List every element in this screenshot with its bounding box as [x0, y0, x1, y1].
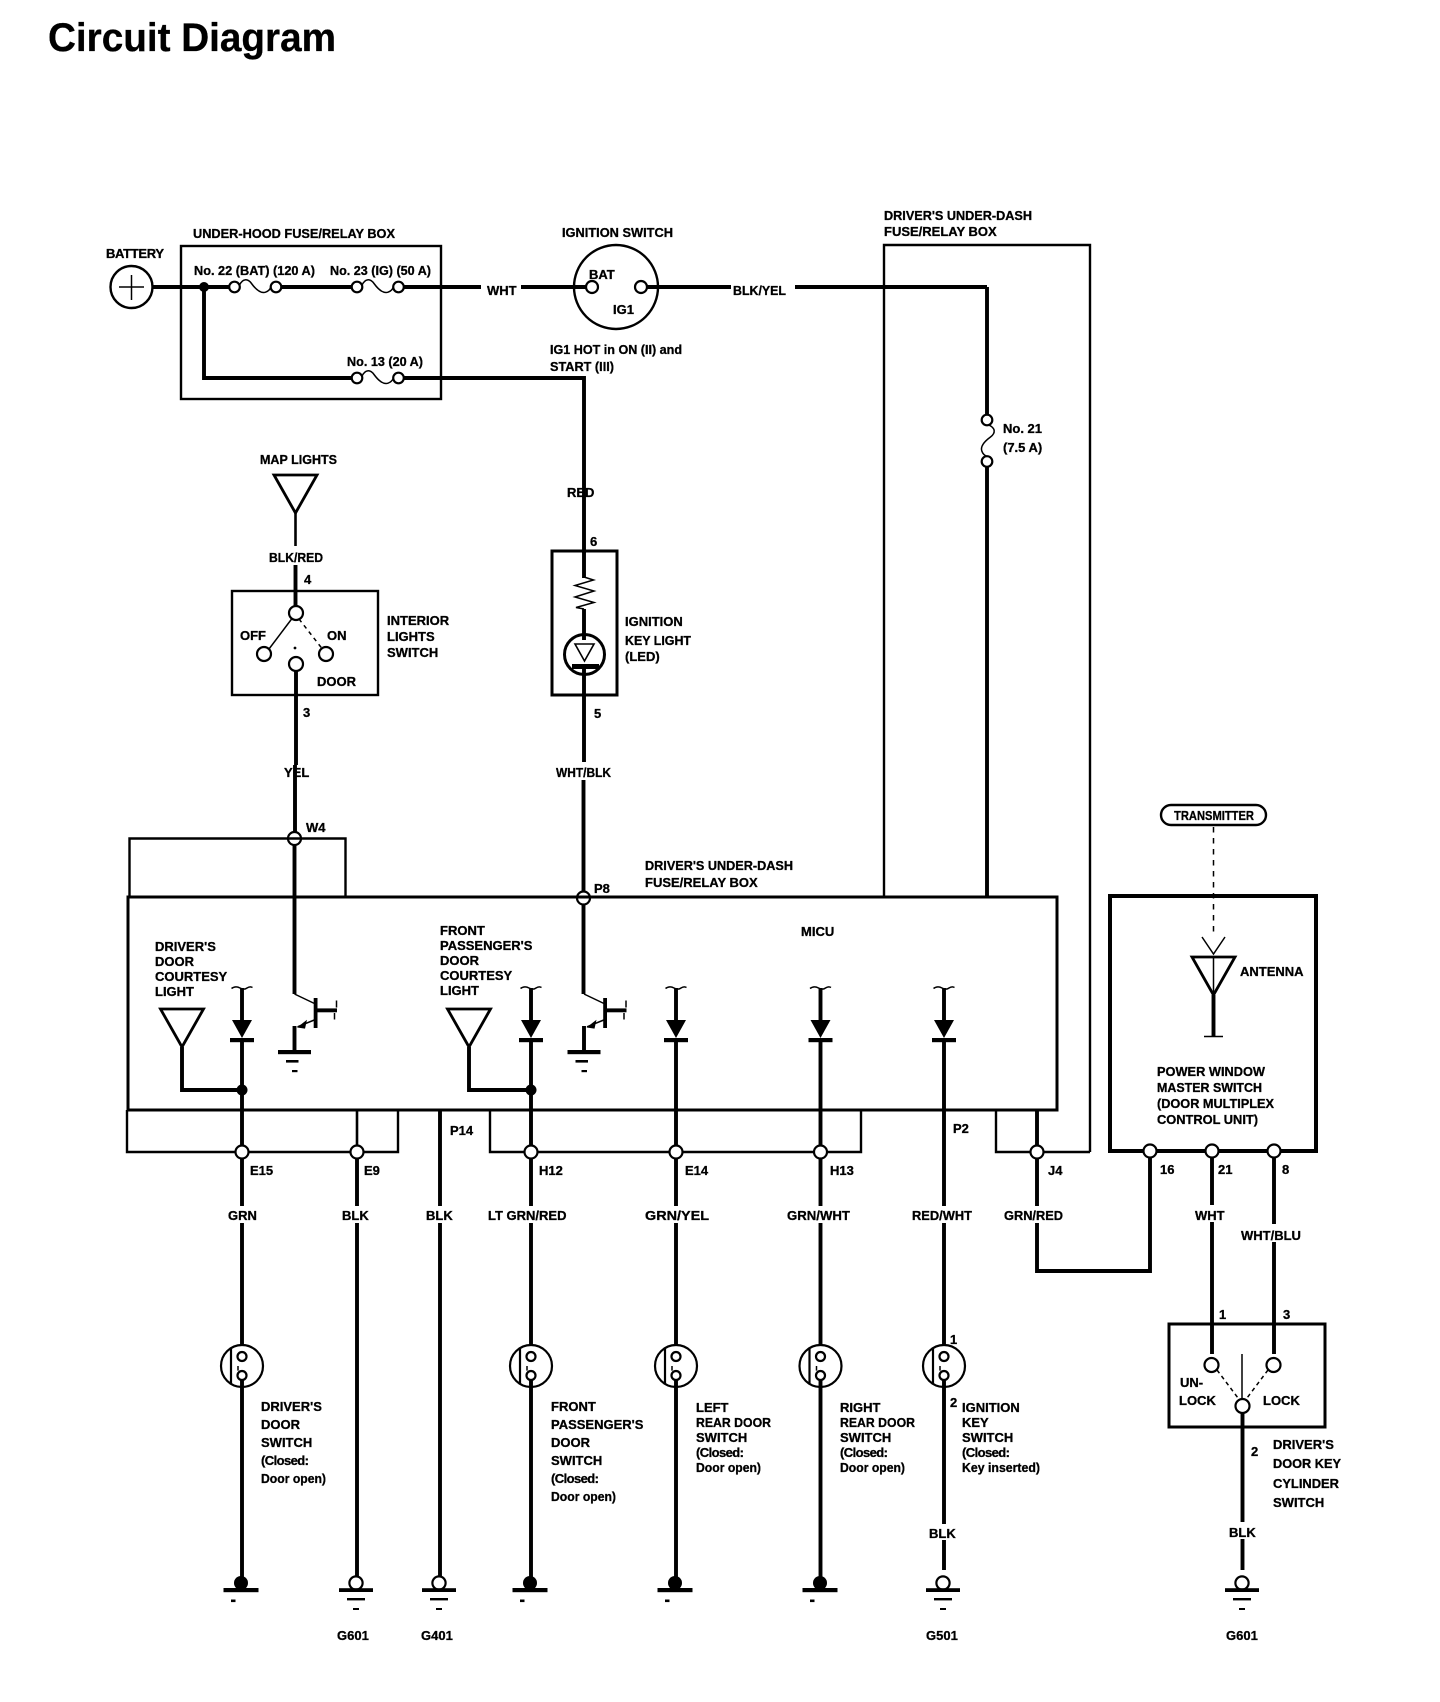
svg-text:4: 4 — [304, 572, 312, 587]
svg-text:5: 5 — [594, 706, 601, 721]
wire LED to box bottom — [582, 666, 586, 695]
interior lights switch — [232, 591, 378, 695]
svg-text:G401: G401 — [421, 1628, 453, 1643]
wire GRN/RED J4 to pin16 — [1037, 1158, 1150, 1271]
wire J4 stub — [1035, 1110, 1039, 1146]
svg-text:G601: G601 — [337, 1628, 369, 1643]
svg-text:No. 23 (IG) (50 A): No. 23 (IG) (50 A) — [330, 263, 431, 278]
svg-text:DOOR: DOOR — [261, 1417, 301, 1432]
svg-text:2: 2 — [950, 1395, 957, 1410]
wire GRN — [240, 1158, 244, 1353]
wire passenger switch to ground — [529, 1379, 533, 1578]
svg-text:BLK/RED: BLK/RED — [269, 550, 323, 565]
svg-text:Door open): Door open) — [551, 1489, 616, 1504]
driver's door switch — [221, 1345, 263, 1387]
dashed contact to unlock — [1217, 1370, 1238, 1398]
svg-text:KEY: KEY — [962, 1415, 989, 1430]
wire YEL switch to W4 — [294, 671, 298, 765]
wire resistor to LED — [582, 609, 586, 640]
transmitter — [1161, 805, 1266, 825]
wire BLK/YEL ignition to under-dash box — [647, 285, 731, 289]
ignition key switch — [923, 1345, 965, 1387]
transistor Q2 — [568, 994, 627, 1072]
svg-text:Key inserted): Key inserted) — [962, 1460, 1040, 1475]
lever — [1241, 1354, 1243, 1398]
svg-text:LIGHT: LIGHT — [155, 984, 194, 999]
svg-text:IG1: IG1 — [613, 302, 634, 317]
svg-text:BLK: BLK — [426, 1208, 453, 1223]
wire P14 — [438, 1110, 442, 1577]
svg-text:COURTESY: COURTESY — [440, 968, 513, 983]
svg-text:No. 22 (BAT) (120 A): No. 22 (BAT) (120 A) — [194, 263, 315, 278]
svg-text:LOCK: LOCK — [1263, 1393, 1300, 1408]
svg-text:ANTENNA: ANTENNA — [1240, 964, 1304, 979]
svg-text:FUSE/RELAY BOX: FUSE/RELAY BOX — [645, 875, 758, 890]
svg-text:KEY LIGHT: KEY LIGHT — [625, 633, 691, 648]
svg-text:Door open): Door open) — [261, 1471, 326, 1486]
svg-text:REAR DOOR: REAR DOOR — [696, 1415, 772, 1430]
wire GRN/YEL — [674, 1158, 678, 1353]
svg-text:(LED): (LED) — [625, 649, 660, 664]
diode D5 — [932, 987, 956, 1042]
svg-text:E15: E15 — [250, 1163, 273, 1178]
svg-text:CYLINDER: CYLINDER — [1273, 1476, 1340, 1491]
dashed transmitter signal — [1213, 827, 1215, 934]
svg-text:BATTERY: BATTERY — [106, 246, 164, 261]
svg-text:SWITCH: SWITCH — [1273, 1495, 1324, 1510]
wire WHT/BLU pin8 to key cylinder — [1272, 1158, 1276, 1354]
switch ON terminal — [319, 647, 333, 661]
svg-text:FRONT: FRONT — [440, 923, 485, 938]
wire GRN/WHT — [819, 1158, 823, 1353]
svg-text:G601: G601 — [1226, 1628, 1258, 1643]
svg-text:RIGHT: RIGHT — [840, 1400, 881, 1415]
svg-text:MAP LIGHTS: MAP LIGHTS — [260, 452, 337, 467]
svg-text:8: 8 — [1282, 1162, 1289, 1177]
front passenger's door switch — [510, 1345, 552, 1387]
left rear door switch — [655, 1345, 697, 1387]
svg-text:OFF: OFF — [240, 628, 266, 643]
svg-text:CONTROL UNIT): CONTROL UNIT) — [1157, 1112, 1258, 1127]
svg-text:Door open): Door open) — [696, 1460, 761, 1475]
driver's door courtesy light — [161, 1009, 204, 1047]
fuse No.21 (7.5 A) — [981, 415, 994, 467]
svg-text:INTERIOR: INTERIOR — [387, 613, 450, 628]
under-dash box top strip — [130, 839, 346, 898]
svg-text:(Closed:: (Closed: — [261, 1453, 309, 1468]
svg-text:COURTESY: COURTESY — [155, 969, 228, 984]
svg-text:H12: H12 — [539, 1163, 563, 1178]
power window master switch box — [1110, 896, 1316, 1151]
svg-text:No. 13 (20 A): No. 13 (20 A) — [347, 354, 423, 369]
svg-text:GRN/RED: GRN/RED — [1004, 1208, 1063, 1223]
connector E14 — [670, 1146, 683, 1159]
svg-text:DRIVER'S: DRIVER'S — [261, 1399, 322, 1414]
svg-text:(Closed:: (Closed: — [962, 1445, 1010, 1460]
wire driver's switch to ground — [240, 1379, 244, 1578]
switch lever to OFF — [269, 619, 292, 650]
wire left rear switch to ground — [674, 1379, 678, 1578]
ground left rear switch — [658, 1576, 693, 1602]
wire into key light — [582, 551, 586, 578]
svg-text:No. 21: No. 21 — [1003, 421, 1042, 436]
terminal LOCK — [1267, 1358, 1281, 1372]
svg-text:PASSENGER'S: PASSENGER'S — [551, 1417, 644, 1432]
svg-text:IGNITION: IGNITION — [625, 614, 683, 629]
svg-text:WHT: WHT — [1195, 1208, 1225, 1223]
svg-text:W4: W4 — [306, 820, 326, 835]
svg-text:IGNITION: IGNITION — [962, 1400, 1020, 1415]
svg-text:TRANSMITTER: TRANSMITTER — [1174, 808, 1255, 823]
MICU box — [128, 897, 1057, 1110]
svg-text:16: 16 — [1160, 1162, 1174, 1177]
diode D3 — [664, 987, 688, 1042]
ground G401 (P14) — [422, 1576, 456, 1610]
svg-text:BLK/YEL: BLK/YEL — [733, 283, 786, 298]
node W4 — [288, 832, 301, 845]
ground right rear switch — [803, 1576, 838, 1602]
front passenger's door courtesy light — [448, 1009, 491, 1047]
svg-text:J4: J4 — [1048, 1163, 1063, 1178]
svg-text:RED: RED — [567, 485, 594, 500]
svg-text:START (III): START (III) — [550, 359, 614, 374]
svg-text:E9: E9 — [364, 1163, 380, 1178]
wire courtesy light 2 to junction — [469, 1047, 529, 1090]
junction dot passenger courtesy — [526, 1085, 537, 1096]
svg-text:FRONT: FRONT — [551, 1399, 596, 1414]
svg-text:POWER WINDOW: POWER WINDOW — [1157, 1064, 1266, 1079]
svg-text:(Closed:: (Closed: — [551, 1471, 599, 1486]
resistor — [575, 577, 594, 609]
svg-text:GRN: GRN — [228, 1208, 257, 1223]
svg-text:DRIVER'S UNDER-DASH: DRIVER'S UNDER-DASH — [884, 208, 1032, 223]
svg-text:SWITCH: SWITCH — [261, 1435, 312, 1450]
svg-text:WHT/BLK: WHT/BLK — [556, 765, 612, 780]
svg-text:MICU: MICU — [801, 924, 834, 939]
antenna — [1192, 957, 1235, 995]
svg-text:BAT: BAT — [589, 267, 615, 282]
svg-text:2: 2 — [1251, 1444, 1258, 1459]
svg-text:ON: ON — [327, 628, 347, 643]
svg-text:LIGHTS: LIGHTS — [387, 629, 435, 644]
svg-text:(Closed:: (Closed: — [840, 1445, 888, 1460]
dashed contact to lock — [1247, 1370, 1268, 1398]
map lights lamp — [274, 475, 317, 513]
ground driver's door switch — [224, 1576, 259, 1602]
svg-text:DOOR: DOOR — [551, 1435, 591, 1450]
diode D2 — [519, 987, 543, 1042]
wire D5 through P2 — [942, 1042, 946, 1353]
svg-text:DOOR KEY: DOOR KEY — [1273, 1456, 1341, 1471]
svg-text:UNDER-HOOD FUSE/RELAY BOX: UNDER-HOOD FUSE/RELAY BOX — [193, 226, 395, 241]
connector H13 — [814, 1146, 827, 1159]
svg-text:DRIVER'S: DRIVER'S — [1273, 1437, 1334, 1452]
svg-text:DRIVER'S UNDER-DASH: DRIVER'S UNDER-DASH — [645, 858, 793, 873]
svg-text:LT GRN/RED: LT GRN/RED — [488, 1208, 566, 1223]
ground G601 (E9) — [339, 1576, 373, 1610]
LED lamp — [565, 635, 605, 675]
pin 8 — [1268, 1145, 1281, 1158]
connector strip H12/E14/H13 — [490, 1110, 861, 1152]
connector strip J4 — [996, 1110, 1090, 1152]
svg-text:YEL: YEL — [284, 765, 309, 780]
svg-text:P8: P8 — [594, 881, 610, 896]
wire WHT fuse23 to ignition switch — [404, 285, 481, 289]
svg-text:E14: E14 — [685, 1163, 709, 1178]
wire map lights to switch — [294, 513, 297, 546]
svg-text:BLK: BLK — [929, 1526, 956, 1541]
terminal IG1 — [635, 281, 647, 293]
svg-text:IGNITION SWITCH: IGNITION SWITCH — [562, 225, 673, 240]
battery — [111, 266, 153, 308]
dashed lever to ON — [299, 619, 322, 649]
connector J4 — [1031, 1146, 1044, 1159]
driver's door key cylinder switch box — [1169, 1324, 1325, 1427]
svg-text:BLK: BLK — [342, 1208, 369, 1223]
switch DOOR terminal — [289, 657, 303, 671]
right rear door switch — [800, 1345, 842, 1387]
wire D1 to E15 — [240, 1042, 244, 1146]
wire BLK key cylinder to ground — [1241, 1413, 1245, 1570]
svg-text:IG1 HOT in ON (II) and: IG1 HOT in ON (II) and — [550, 342, 682, 357]
connector E15 — [236, 1146, 249, 1159]
switch OFF terminal — [257, 647, 271, 661]
pin 16 — [1144, 1145, 1157, 1158]
svg-text:GRN/YEL: GRN/YEL — [645, 1208, 709, 1223]
wire E9 stub — [356, 1110, 359, 1146]
wire W4 to Q1 — [293, 845, 297, 994]
svg-text:(Closed:: (Closed: — [696, 1445, 744, 1460]
terminal common — [1236, 1399, 1250, 1413]
svg-text:LOCK: LOCK — [1179, 1393, 1216, 1408]
under-hood fuse/relay box — [181, 246, 441, 399]
svg-text:1: 1 — [1219, 1307, 1226, 1322]
connector H12 — [525, 1146, 538, 1159]
svg-text:Door open): Door open) — [840, 1460, 905, 1475]
pin 21 — [1206, 1145, 1219, 1158]
diode D1 — [230, 987, 254, 1042]
wire LT GRN/RED — [529, 1158, 533, 1353]
node P8 — [577, 892, 590, 905]
svg-text:BLK: BLK — [1229, 1525, 1256, 1540]
switch common terminal — [289, 606, 303, 620]
svg-text:DOOR: DOOR — [317, 674, 357, 689]
svg-text:P14: P14 — [450, 1123, 474, 1138]
wire BLK E9 — [355, 1158, 359, 1577]
ground G601 key cylinder — [1225, 1576, 1259, 1610]
ground G501 — [926, 1576, 960, 1610]
svg-text:RED/WHT: RED/WHT — [912, 1208, 972, 1223]
terminal BAT — [586, 281, 598, 293]
svg-text:21: 21 — [1218, 1162, 1232, 1177]
svg-text:(DOOR MULTIPLEX: (DOOR MULTIPLEX — [1157, 1096, 1274, 1111]
svg-text:G501: G501 — [926, 1628, 958, 1643]
svg-text:SWITCH: SWITCH — [387, 645, 438, 660]
svg-text:DOOR: DOOR — [440, 953, 480, 968]
ground front passenger switch — [513, 1576, 548, 1602]
wire right rear switch to ground — [819, 1379, 823, 1578]
svg-text:P2: P2 — [953, 1121, 969, 1136]
wire WHT pin21 to key cylinder — [1210, 1158, 1214, 1354]
svg-text:SWITCH: SWITCH — [696, 1430, 747, 1445]
junction dot driver courtesy — [237, 1085, 248, 1096]
svg-text:LEFT: LEFT — [696, 1400, 729, 1415]
svg-text:DRIVER'S: DRIVER'S — [155, 939, 216, 954]
svg-text:GRN/WHT: GRN/WHT — [787, 1208, 850, 1223]
svg-text:PASSENGER'S: PASSENGER'S — [440, 938, 533, 953]
svg-text:SWITCH: SWITCH — [551, 1453, 602, 1468]
svg-text:6: 6 — [590, 534, 597, 549]
ignition key light box — [552, 551, 617, 695]
svg-text:FUSE/RELAY BOX: FUSE/RELAY BOX — [884, 224, 997, 239]
wire fuse21 to MICU — [985, 467, 989, 897]
svg-text:Circuit Diagram: Circuit Diagram — [48, 16, 336, 60]
wire WHT/BLK to P8 — [582, 695, 586, 762]
diode D4 — [809, 987, 833, 1042]
svg-text:WHT/BLU: WHT/BLU — [1241, 1228, 1301, 1243]
svg-text:LIGHT: LIGHT — [440, 983, 479, 998]
svg-text:1: 1 — [950, 1332, 957, 1347]
transistor Q1 — [278, 994, 337, 1072]
node battery junction — [199, 282, 209, 292]
svg-text:DOOR: DOOR — [155, 954, 195, 969]
svg-text:SWITCH: SWITCH — [840, 1430, 891, 1445]
connector E9 — [351, 1146, 364, 1159]
wire P8 to Q2 — [582, 904, 586, 994]
svg-text:3: 3 — [1283, 1307, 1290, 1322]
connector strip E15/E9 — [127, 1110, 398, 1152]
label BLK P14 — [424, 1206, 454, 1223]
wire D3 to E14 — [674, 1042, 678, 1146]
wire D2 to H12 — [529, 1042, 533, 1146]
wire fuse22 to fuse23 — [281, 285, 352, 289]
label RED/WHT — [910, 1206, 974, 1223]
svg-text:(7.5 A): (7.5 A) — [1003, 440, 1042, 455]
wire BLK key switch to ground — [942, 1379, 946, 1570]
wire fuse13 branch — [204, 287, 352, 378]
svg-text:UN-: UN- — [1180, 1375, 1203, 1390]
wire courtesy light to junction — [182, 1047, 240, 1090]
terminal UNLOCK — [1205, 1358, 1219, 1372]
wire D4 to H13 — [819, 1042, 823, 1146]
svg-text:REAR DOOR: REAR DOOR — [840, 1415, 916, 1430]
svg-text:SWITCH: SWITCH — [962, 1430, 1013, 1445]
wire BLK/YEL drop to fuse 21 — [985, 287, 989, 415]
svg-text:H13: H13 — [830, 1163, 854, 1178]
svg-text:MASTER SWITCH: MASTER SWITCH — [1157, 1080, 1262, 1095]
wire fuse13 to RED drop — [404, 378, 584, 553]
wire battery to fuse box — [152, 285, 229, 289]
svg-text:WHT: WHT — [487, 283, 517, 298]
svg-text:3: 3 — [303, 705, 310, 720]
